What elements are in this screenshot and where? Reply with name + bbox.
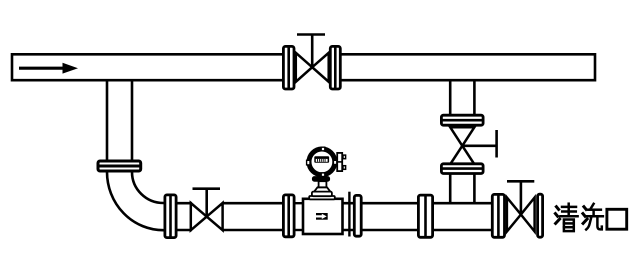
elbow left bottom: [107, 168, 164, 230]
char 洗 water radical: [583, 207, 587, 224]
flange pair before valve V4: [492, 194, 504, 237]
valve V2 bowtie: [191, 203, 223, 230]
valve V3 handle: [462, 130, 496, 158]
flowmeter FM neck trapezoid: [314, 187, 330, 191]
wire top pipe left segment: [12, 54, 290, 80]
end flange (cleaning port): [538, 194, 543, 237]
char 洗 xian: [590, 204, 593, 209]
valve V1 right flange: [330, 46, 340, 89]
flowmeter FM body: [303, 199, 343, 234]
flange pair on left vertical pipe: [98, 161, 141, 171]
valve V3 upper flange on right branch: [441, 115, 483, 125]
flange pair bottom pipe at tee: [418, 195, 432, 237]
wire bottom pipe segment 3 (meter to right flange pair): [342, 203, 500, 230]
flowmeter FM head lugs: [307, 147, 337, 176]
valve V1 on top pipe: left flange: [283, 46, 294, 89]
flowmeter FM inlet flange pair: [283, 195, 294, 237]
label 清洗口 (drawn strokes): [555, 204, 626, 231]
valve V3 bowtie vertical: [450, 127, 474, 164]
valve V1 bowtie: [296, 53, 329, 82]
char 口: [607, 209, 627, 229]
valve V1 handle: [297, 35, 325, 68]
valve V4 handle: [507, 181, 534, 214]
flowmeter FM transmitter head circle: [309, 149, 335, 175]
flow direction arrow: [19, 63, 78, 74]
flowmeter FM display window: [314, 156, 329, 163]
wire left vertical pipe: [107, 79, 132, 168]
flange pair bottom pipe left (elbow outlet): [165, 195, 176, 238]
flowmeter FM outlet plate: [348, 192, 350, 237]
wire right vertical pipe upper segment: [450, 79, 474, 120]
valve V4 bowtie: [507, 198, 535, 232]
flowmeter FM neck stem: [319, 181, 327, 187]
char 清 top bars: [562, 206, 576, 209]
flowmeter FM connector boxes: [337, 153, 345, 171]
flowmeter FM collar: [312, 177, 329, 182]
flowmeter FM body top cap: [309, 192, 335, 200]
valve V2 handle: [193, 189, 221, 217]
flowmeter FM inlet stub: [294, 203, 304, 230]
wire top pipe right segment: [334, 54, 595, 80]
char 清 water radical: [555, 207, 559, 224]
wire bottom pipe segment 1 (flange to valve): [168, 203, 192, 230]
wire right vertical pipe lower segment: [450, 170, 474, 203]
flowmeter FM flow icon: [316, 213, 328, 220]
char 清 moon box: [564, 220, 574, 232]
valve V3 lower flange on right branch: [441, 164, 483, 174]
flowmeter FM outlet flange: [354, 195, 361, 236]
wire bottom pipe segment 2 (valve to meter): [222, 203, 290, 230]
